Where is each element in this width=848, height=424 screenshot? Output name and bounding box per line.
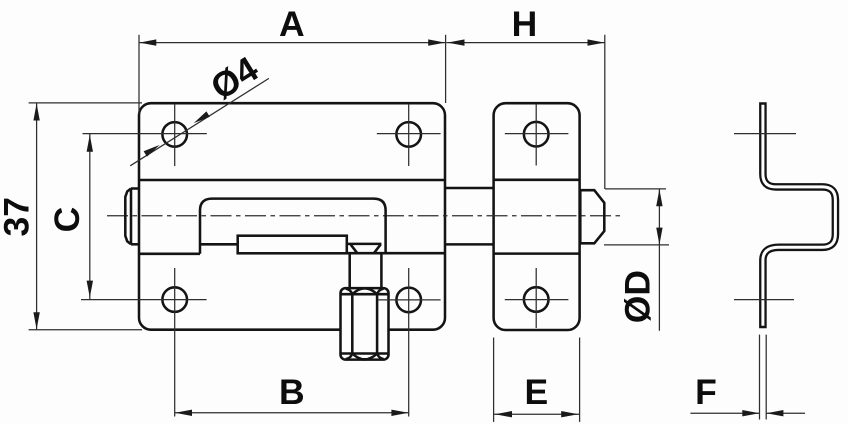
svg-text:H: H xyxy=(512,4,538,44)
dimension B xyxy=(175,372,409,416)
bolt lower profile line xyxy=(200,243,238,246)
svg-text:E: E xyxy=(524,372,548,412)
dimension A xyxy=(139,4,446,114)
svg-text:F: F xyxy=(695,372,717,412)
knob neck xyxy=(347,244,382,289)
svg-text:ØD: ØD xyxy=(618,270,658,323)
centerline xyxy=(107,215,620,217)
svg-text:B: B xyxy=(279,372,305,412)
svg-text:C: C xyxy=(47,207,87,233)
housing top edge xyxy=(139,179,445,182)
bolt rod xyxy=(445,188,494,244)
keeper hole top xyxy=(505,104,569,166)
dimension H xyxy=(446,4,604,189)
hole bottom-left xyxy=(81,268,207,417)
svg-text:A: A xyxy=(279,4,305,44)
side view strip xyxy=(763,102,836,328)
dimension OD xyxy=(604,189,669,331)
side view hole centerline top xyxy=(734,133,796,135)
diameter callout O4 xyxy=(130,48,269,165)
keeper hole bottom xyxy=(505,268,569,328)
main plate xyxy=(139,103,445,330)
dimension C xyxy=(47,134,93,300)
hole bottom-right xyxy=(378,268,441,417)
bolt left barrel end xyxy=(125,189,139,245)
bridge n-curve xyxy=(200,199,386,254)
housing bottom edge left xyxy=(139,253,200,256)
dimension 37 xyxy=(0,103,142,330)
dimension E xyxy=(494,338,580,422)
keeper plate xyxy=(494,103,580,330)
housing bottom edge right xyxy=(347,252,445,255)
hole top-left xyxy=(83,104,207,166)
bolt right cap xyxy=(580,190,604,243)
side view hole centerline bottom xyxy=(734,299,794,301)
keeper loop edges xyxy=(494,180,580,254)
svg-text:37: 37 xyxy=(0,197,36,237)
slide tab rectangle xyxy=(238,236,347,254)
hole top-right xyxy=(377,104,441,166)
hex grip xyxy=(341,288,389,360)
dimension F xyxy=(690,335,805,420)
